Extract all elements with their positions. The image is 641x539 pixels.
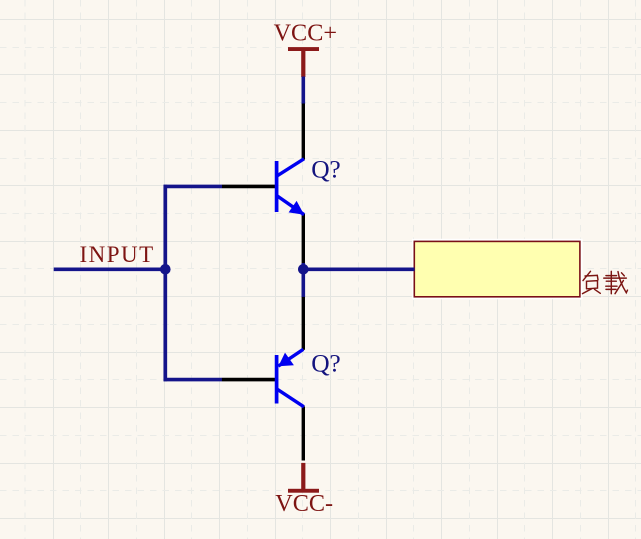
svg-text:Q?: Q? xyxy=(311,348,340,377)
Q2 base bar xyxy=(275,355,279,404)
svg-text:VCC-: VCC- xyxy=(275,490,333,517)
Q1 collector stroke xyxy=(277,159,304,176)
power port VCC- xyxy=(275,463,333,517)
svg-text:VCC+: VCC+ xyxy=(274,20,337,47)
Q2 emitter stroke xyxy=(278,349,303,366)
Q1 emitter arrow xyxy=(289,201,305,215)
Q2 emitter arrow xyxy=(278,353,294,367)
Q2 base pin xyxy=(222,378,275,382)
junction dot input node xyxy=(160,264,171,275)
wire output node down to Q2 emitter pin xyxy=(301,269,305,298)
wire output node to load xyxy=(303,267,414,271)
Q1 base bar xyxy=(275,161,279,212)
load box 负载 xyxy=(414,241,580,296)
wire VCC+ to Q1 collector pin xyxy=(301,77,305,105)
wire input net horizontal xyxy=(54,267,166,271)
power port VCC+ xyxy=(274,20,337,77)
wire Q1 emitter to output node xyxy=(301,263,305,270)
junction dot output node xyxy=(298,264,309,275)
载 char xyxy=(604,271,628,293)
负 char xyxy=(583,271,601,293)
wire left vertical (base bus) xyxy=(163,185,167,382)
wire to Q1 base xyxy=(164,185,222,189)
Q2 collector stroke xyxy=(277,389,304,407)
svg-text:Q?: Q? xyxy=(311,154,340,183)
transistor Q2 (PNP) xyxy=(222,297,304,461)
wire to Q2 base xyxy=(164,378,222,382)
Q2 emitter pin xyxy=(302,297,305,350)
transistor Q1 (NPN) xyxy=(222,104,304,264)
svg-text:INPUT: INPUT xyxy=(80,242,155,267)
load box (negative halo) xyxy=(412,239,583,299)
Q1 base pin xyxy=(222,185,275,189)
Q1 emitter pin xyxy=(302,214,305,263)
Q2 collector pin xyxy=(302,406,305,460)
Q1 collector pin xyxy=(302,104,305,160)
Q1 emitter stroke xyxy=(277,196,305,215)
label 负载 (load) xyxy=(583,271,628,294)
